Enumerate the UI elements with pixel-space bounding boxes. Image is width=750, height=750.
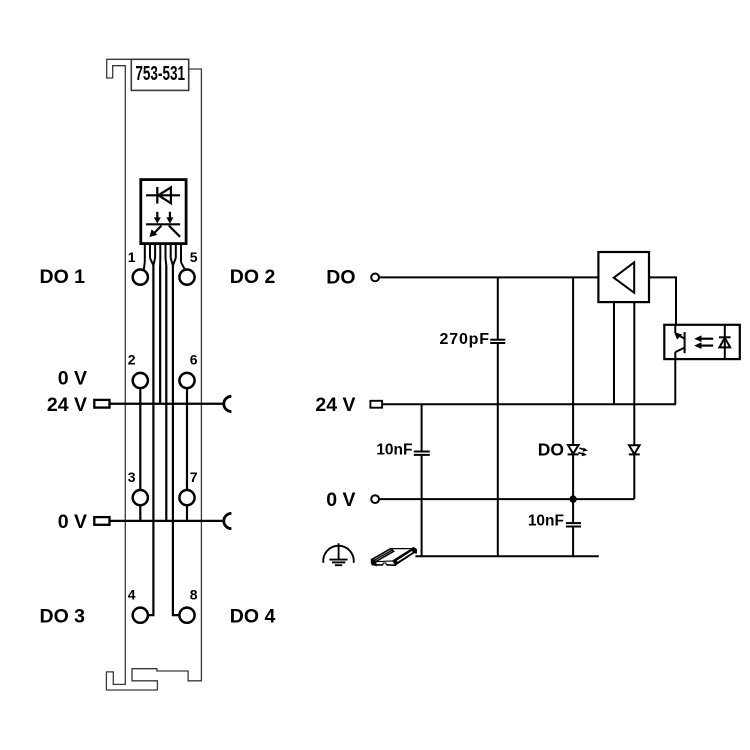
svg-text:DO 1: DO 1: [39, 266, 85, 288]
channel near edge: [376, 560, 393, 563]
wire amp output to optocoupler: [649, 277, 676, 324]
contact 2: [133, 373, 148, 388]
left flange (white top + inner face): [373, 549, 394, 562]
LED DO emission arrows: [578, 448, 584, 454]
svg-text:0 V: 0 V: [58, 511, 87, 533]
pins under LED box: [145, 244, 181, 266]
junction node: [569, 495, 576, 502]
notch: [383, 563, 386, 565]
diode D3: [629, 404, 640, 499]
svg-text:5: 5: [190, 249, 198, 265]
wire contact 6 to contact 7: [186, 386, 188, 489]
bottom bar right: [386, 564, 396, 566]
wire DO line: [379, 276, 598, 278]
0V terminal circle: [371, 495, 379, 503]
right end cap (black): [411, 547, 416, 553]
wire contact 3 to 0V rail: [139, 506, 141, 521]
bottom bar left: [372, 564, 383, 566]
wire 0V line: [379, 498, 634, 500]
amplifier U2: [598, 252, 649, 302]
wire pin8 to contact 5: [181, 262, 185, 270]
wire bus 24V feed: [159, 266, 161, 404]
svg-text:10nF: 10nF: [376, 442, 412, 459]
svg-text:4: 4: [128, 587, 136, 603]
capacitor C1 270pF: [490, 277, 505, 556]
svg-text:270pF: 270pF: [440, 331, 490, 348]
LED indicator box U1: [141, 180, 186, 244]
svg-text:0 V: 0 V: [326, 489, 355, 511]
wire amp pin right to 24V: [633, 302, 635, 404]
module outline 753-531 body: [106, 59, 201, 690]
24V rail wire (left module): [110, 403, 223, 405]
svg-text:DO 3: DO 3: [39, 605, 85, 627]
svg-text:DO 4: DO 4: [230, 605, 276, 627]
wire bus DO3: [149, 266, 154, 616]
wire 24V line: [382, 403, 676, 405]
DIN rail symbol: [371, 547, 416, 566]
contact 5: [179, 270, 194, 285]
svg-text:DO: DO: [326, 267, 355, 289]
capacitor C2 10nF: [414, 404, 430, 556]
diode D1 inside LED box: [146, 187, 180, 204]
contact 3: [133, 490, 148, 505]
contact 7: [179, 490, 194, 505]
ground symbol: [323, 543, 354, 565]
far-end top edge: [391, 548, 413, 550]
wire shield rail: [415, 555, 598, 557]
24V power jumper contact (left module): [94, 400, 109, 408]
24V jumper contact symbol (schematic): [370, 401, 382, 408]
svg-text:1: 1: [128, 249, 136, 265]
wire contact 2 to contact 3: [139, 386, 141, 489]
svg-text:DO 2: DO 2: [230, 266, 276, 288]
white stripe on right flange: [397, 551, 414, 562]
wire amp pin left to 24V: [613, 302, 615, 404]
wire opto emitter to 24V: [674, 359, 676, 404]
wire contact 7 to 0V rail: [186, 506, 188, 521]
LED DO indicator: [568, 277, 579, 499]
contact 8: [179, 608, 194, 623]
phototransistor Q1: [675, 325, 684, 359]
svg-text:24 V: 24 V: [315, 394, 355, 416]
opto LED D2: [719, 325, 731, 359]
wire bus DO4: [173, 266, 179, 616]
contact 6: [179, 373, 194, 388]
optocoupler light arrows: [700, 339, 714, 346]
svg-text:2: 2: [128, 352, 136, 368]
contact 4: [133, 608, 148, 623]
optocoupler U3: [664, 325, 740, 359]
0V spring contact arc: [224, 513, 232, 528]
wire pin1 to contact 1: [144, 262, 145, 269]
svg-text:24 V: 24 V: [47, 394, 87, 416]
svg-text:8: 8: [190, 587, 198, 603]
contact 1: [133, 270, 148, 285]
svg-text:6: 6: [190, 352, 198, 368]
LED pair symbol inside LED box: [146, 212, 180, 237]
right flange black band: [393, 549, 415, 566]
label box 753-531: [131, 59, 188, 90]
svg-text:7: 7: [190, 469, 198, 485]
svg-text:10nF: 10nF: [528, 513, 564, 530]
svg-text:0 V: 0 V: [58, 368, 87, 390]
0V power jumper contact (left module): [94, 517, 109, 525]
0V rail wire (left module): [110, 520, 223, 522]
wire bus 0V feed: [165, 266, 167, 521]
capacitor C3 10nF: [566, 499, 581, 556]
svg-text:DO: DO: [538, 439, 564, 459]
svg-text:753-531: 753-531: [135, 61, 185, 85]
svg-text:3: 3: [128, 469, 136, 485]
left end foot (black): [371, 559, 376, 566]
24V spring contact arc: [224, 396, 232, 411]
DO terminal circle: [371, 274, 379, 282]
